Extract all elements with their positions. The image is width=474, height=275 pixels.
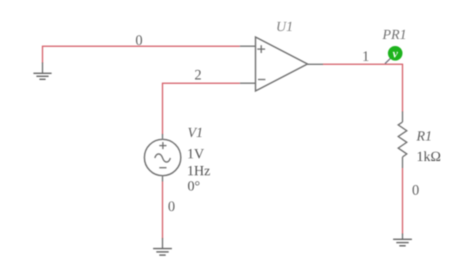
label U1 xyxy=(277,22,291,31)
probe PR1 xyxy=(385,46,403,64)
ground GND3 xyxy=(393,234,412,246)
net label 1 xyxy=(363,51,368,61)
wire net 0 from R1 to GND3 xyxy=(402,168,404,234)
label R1 xyxy=(416,131,430,140)
value labels V1: 1V 1Hz 0deg xyxy=(188,149,210,191)
wire net 0 from GND1 to U1 + input xyxy=(43,46,240,63)
wire net 1 from U1 output to R1 xyxy=(323,64,403,112)
ground GND2 xyxy=(153,238,172,255)
resistor R1 xyxy=(398,112,407,169)
net label 0 (below V1) xyxy=(168,201,174,211)
source V1 xyxy=(144,134,180,182)
net label 0 (top wire) xyxy=(136,35,142,45)
op-amp U1 xyxy=(240,37,323,91)
ground GND1 xyxy=(33,63,51,80)
net label 2 xyxy=(195,70,201,80)
wire net 0 from V1 to GND2 xyxy=(162,182,164,239)
label PR1 xyxy=(382,30,405,39)
label V1 xyxy=(188,128,201,137)
wire net 2 from V1 to U1 - input xyxy=(163,83,240,134)
value label 1kOhm xyxy=(418,151,440,161)
net label 0 (below R1) xyxy=(413,185,419,195)
